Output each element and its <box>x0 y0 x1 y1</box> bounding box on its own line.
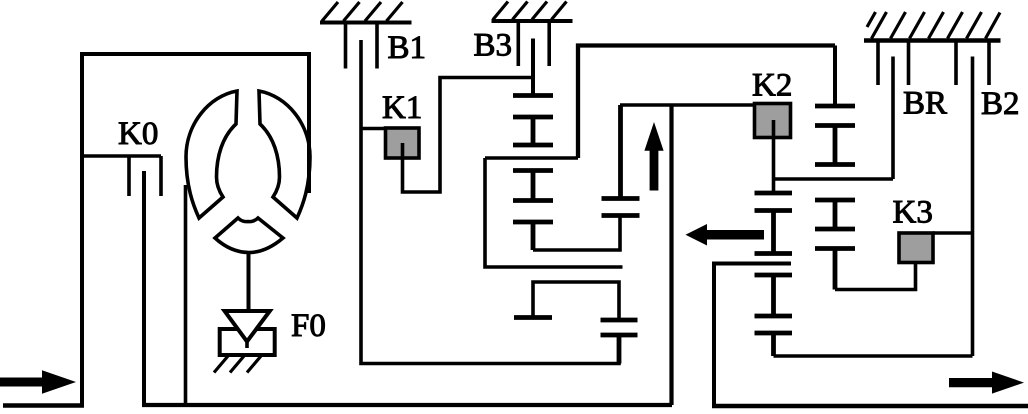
ring gear link wire <box>533 216 620 251</box>
freewheel F0 triangle <box>225 311 270 342</box>
carrier riser wire to top rail <box>578 46 835 159</box>
svg-text:K1: K1 <box>382 90 422 126</box>
freewheel F0 tick <box>245 342 249 349</box>
clutch K0 inner shaft wire <box>142 171 146 405</box>
planetary gearset 2 planet pinion upper <box>815 126 855 165</box>
left arrow <box>686 224 765 246</box>
clutch K3 top wire <box>933 231 973 235</box>
brake BR outer plates <box>878 41 909 86</box>
torque converter pump connection wire <box>184 185 188 405</box>
planetary gearset 1 sun gear bar <box>513 93 553 98</box>
clutch K1 connection wire <box>361 127 386 131</box>
brake BR/B2 hatching <box>867 12 1000 39</box>
bottom main shaft wire <box>142 403 672 407</box>
clutch K0 outer plates <box>129 156 161 196</box>
freewheel F0 rectangle <box>220 329 275 355</box>
planetary gearset 1 ring gear bar <box>513 222 553 250</box>
planetary gearset 1 planet pinion upper <box>513 117 553 145</box>
brake BR inner shaft wire <box>891 57 895 180</box>
clutch K2 box <box>755 104 791 138</box>
carrier drop wire <box>485 158 623 267</box>
output riser wire <box>669 105 673 405</box>
sun gear bar <box>514 315 552 320</box>
svg-text:F0: F0 <box>291 308 326 344</box>
gearset 2 carrier wire <box>774 177 894 181</box>
output arrow <box>949 372 1024 394</box>
svg-text:K3: K3 <box>893 195 933 231</box>
input arrow <box>0 370 76 393</box>
planetary gearset 2 planet pinion lower <box>815 200 855 229</box>
planetary gearset 1 planet pinion lower <box>513 171 553 201</box>
brake B1 outer plates <box>346 23 378 69</box>
sun gear bridge <box>533 282 619 320</box>
clutch K3 box <box>899 233 933 263</box>
K2 column planet pinion lower <box>755 275 793 316</box>
housing box around torque converter <box>82 54 309 406</box>
brake B3 ceiling <box>492 19 573 23</box>
svg-text:BR: BR <box>903 86 947 122</box>
freewheel F0 ground hatching <box>214 356 261 373</box>
coupling bars on riser <box>602 105 640 216</box>
clutch K1 box <box>386 128 420 158</box>
bottom right long wire <box>712 404 1028 409</box>
clutch K0 horizontal wire <box>80 154 161 158</box>
svg-text:B2: B2 <box>981 86 1020 122</box>
brake B2 inner shaft wire <box>971 57 975 357</box>
svg-text:B1: B1 <box>388 30 427 66</box>
torque converter pump blade (left) <box>186 91 237 218</box>
brake B1 ceiling <box>320 21 412 25</box>
brake B1 / clutch K1 shaft wire down to sun gear line <box>361 40 619 364</box>
case bottom-left stub wire <box>3 403 84 408</box>
brake B3 hatching <box>493 2 567 20</box>
clutch K1 output wire <box>403 78 534 193</box>
bridge coupling bars <box>601 320 638 364</box>
bottom right rail wire <box>774 354 973 358</box>
K2 column planet pinion upper <box>755 211 793 254</box>
torque converter stator lens <box>215 218 283 253</box>
clutch K3 link wire <box>835 248 916 290</box>
planetary gearset 2 riser wire <box>833 46 837 107</box>
planetary gearset 1 carrier wire <box>485 156 578 160</box>
K2 column top bar <box>755 191 793 196</box>
output rail wire <box>620 103 755 107</box>
brake B2 outer plates <box>956 41 989 86</box>
planetary gearset 2 ring gear bar <box>815 249 855 290</box>
brake B1 hatching <box>322 2 403 21</box>
brake B3 outer plates <box>518 21 549 66</box>
K2 column bottom bar <box>755 333 793 356</box>
svg-text:K0: K0 <box>118 116 158 152</box>
brake B3 inner shaft wire <box>531 39 535 96</box>
planetary gearset 2 sun gear bar <box>815 104 855 109</box>
free output wire <box>714 264 791 406</box>
clutch K2 inner shaft wire <box>772 120 776 193</box>
stator shaft wire <box>247 252 251 311</box>
torque converter turbine blade (right) <box>259 91 310 218</box>
up arrow <box>644 122 663 191</box>
brake BR/B2 ceiling <box>864 38 1001 43</box>
svg-text:B3: B3 <box>474 28 513 64</box>
svg-text:K2: K2 <box>752 68 792 104</box>
